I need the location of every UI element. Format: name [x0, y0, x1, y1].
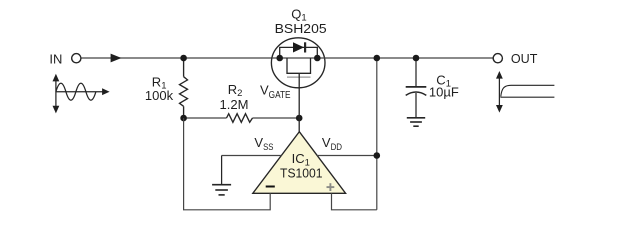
node output waveform symbol: [496, 71, 554, 113]
svg-text:OUT: OUT: [511, 51, 538, 66]
svg-text:VSS: VSS: [254, 135, 273, 153]
label 100k: [145, 88, 174, 103]
svg-text:10µF: 10µF: [429, 85, 459, 100]
label V_SS: [254, 135, 273, 153]
label IN: [49, 51, 62, 66]
node junction top rail / R1: [180, 55, 187, 62]
node input sine-wave source symbol: [53, 74, 110, 114]
wire non-inverting input to output rail: [332, 193, 377, 210]
node junction R1 / R2 / feedback rail: [180, 115, 187, 122]
node Q1 drain dot: [314, 55, 321, 62]
wire input arrowhead: [111, 54, 122, 63]
wire through Q1: [272, 57, 325, 59]
label TS1001: [280, 166, 323, 181]
capacitor C1: [406, 58, 427, 117]
label Q1: [291, 7, 306, 24]
wire output rail vertical: [376, 58, 378, 210]
resistor R1: [180, 58, 188, 118]
transistor Q1 gate lead down to V_GATE node: [298, 73, 300, 118]
label V_GATE: [260, 83, 291, 101]
label R1: [152, 74, 167, 91]
transistor Q1 body circle: [271, 38, 325, 88]
label 1.2M: [220, 97, 249, 112]
transistor Q1 channel bracket: [287, 58, 311, 73]
wire op-amp output lead to gate node: [298, 118, 300, 133]
svg-text:BSH205: BSH205: [275, 21, 327, 36]
label IC1: [292, 151, 310, 169]
label 10uF: [429, 85, 459, 100]
node IN terminal: [72, 54, 81, 63]
wire R2 row right segment: [253, 117, 300, 119]
svg-text:1.2M: 1.2M: [220, 97, 249, 112]
svg-text:VDD: VDD: [322, 135, 342, 153]
node junction R2 / gate / op-amp output (V_GATE): [296, 115, 303, 122]
label BSH205: [275, 21, 327, 36]
wire VDD lead to output rail: [317, 155, 377, 157]
node OUT terminal: [493, 54, 502, 63]
op-amp plus sign: [327, 183, 335, 191]
node Q1 source dot: [276, 55, 283, 62]
label OUT: [511, 51, 538, 66]
node junction top rail / C1: [413, 55, 420, 62]
transistor Q1 gate plate: [287, 76, 311, 78]
wire inverting input feedback path: [184, 118, 271, 210]
label R2: [228, 82, 243, 99]
ground below C1: [407, 118, 425, 126]
wire R2 row left segment: [184, 117, 227, 119]
wire main top rail IN to OUT: [81, 57, 493, 59]
svg-text:TS1001: TS1001: [280, 166, 323, 181]
node junction top rail / output rail: [374, 55, 381, 62]
op-amp IC1 triangle: [253, 132, 346, 194]
label C1: [436, 72, 451, 89]
transistor Q1 body diode: [280, 42, 318, 58]
resistor R2: [227, 114, 253, 123]
wire VSS lead: [222, 155, 282, 157]
node junction VDD / output rail: [374, 152, 381, 159]
ground at VSS: [212, 156, 231, 195]
svg-text:IN: IN: [49, 51, 62, 66]
svg-text:100k: 100k: [145, 88, 174, 103]
label V_DD: [322, 135, 342, 153]
op-amp minus sign: [266, 186, 275, 188]
